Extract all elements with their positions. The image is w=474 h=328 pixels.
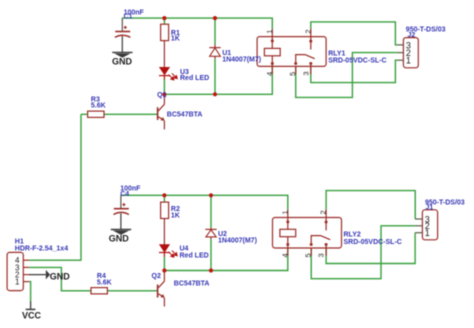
svg-text:C4: C4 [120,191,129,198]
svg-text:1N4007(M7): 1N4007(M7) [218,238,257,245]
svg-text:SRD-05VDC-SL-C: SRD-05VDC-SL-C [328,58,386,65]
svg-text:RLY2: RLY2 [344,232,361,239]
svg-text:Q1: Q1 [157,92,166,99]
svg-text:GND: GND [112,57,133,67]
svg-text:1K: 1K [171,212,180,219]
svg-text:2: 2 [319,210,328,214]
svg-text:1: 1 [406,56,411,66]
svg-text:HDR-F-2.54_1x4: HDR-F-2.54_1x4 [15,245,68,252]
svg-text:J2: J2 [408,32,416,39]
svg-text:3: 3 [317,253,326,257]
svg-text:Red LED: Red LED [180,75,209,82]
svg-text:BC547BTA: BC547BTA [167,111,203,118]
svg-text:5: 5 [288,72,297,76]
svg-text:1K: 1K [171,36,180,43]
svg-text:SRD-05VDC-SL-C: SRD-05VDC-SL-C [344,239,402,246]
svg-text:GND: GND [109,234,130,244]
svg-text:GND: GND [50,271,71,281]
svg-text:4: 4 [280,253,289,257]
svg-text:3: 3 [301,71,310,75]
svg-text:5.6K: 5.6K [97,279,112,286]
svg-text:BC547BTA: BC547BTA [174,281,210,288]
svg-text:RLY1: RLY1 [328,51,345,58]
svg-text:H1: H1 [15,238,24,245]
svg-text:VCC: VCC [22,310,42,320]
svg-text:1: 1 [265,29,274,33]
svg-text:Q2: Q2 [152,273,161,280]
svg-text:C1: C1 [124,14,133,21]
svg-text:5.6K: 5.6K [91,103,106,110]
svg-text:Red LED: Red LED [180,252,209,259]
svg-text:1: 1 [280,210,289,214]
svg-text:1N4007(M7): 1N4007(M7) [222,56,261,63]
svg-text:4: 4 [265,72,274,76]
svg-text:1: 1 [15,278,20,287]
svg-text:1: 1 [425,228,430,238]
svg-text:J1: J1 [426,204,434,211]
svg-text:5: 5 [304,253,313,257]
svg-text:2: 2 [303,29,312,33]
